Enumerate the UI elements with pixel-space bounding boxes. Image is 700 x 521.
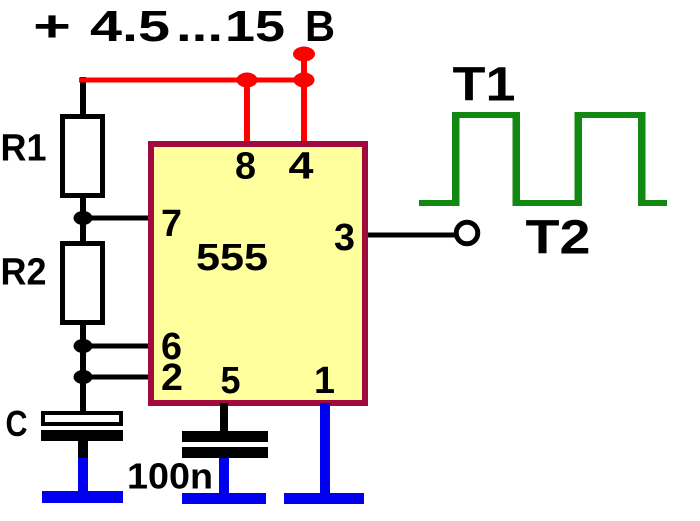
svg-text:+: + xyxy=(33,2,71,51)
wire: lead R1 to R2 xyxy=(80,195,86,243)
svg-text:3: 3 xyxy=(334,217,355,259)
wire: red drop to pin 4 xyxy=(301,56,307,144)
node: junction at pin 7 xyxy=(74,211,93,225)
node: supply terminal dot xyxy=(293,47,315,62)
wire: to pin 2 xyxy=(83,375,152,380)
svg-text:...: ... xyxy=(176,2,223,51)
resistor R1 xyxy=(63,117,103,196)
capacitor C bottom plate xyxy=(41,430,123,441)
node: junction on rail at pin 4 xyxy=(294,73,315,88)
svg-text:1: 1 xyxy=(314,360,335,402)
svg-text:R2: R2 xyxy=(1,252,47,294)
capacitor 100n top plate xyxy=(182,431,268,442)
svg-text:100n: 100n xyxy=(127,456,213,497)
wire: to pin 7 xyxy=(83,216,152,221)
node: output terminal (open circle) xyxy=(456,222,478,244)
wire: lead R2 down to capacitor C xyxy=(80,322,86,411)
svg-text:4.5: 4.5 xyxy=(90,2,170,51)
node: junction at pin 2 xyxy=(74,370,93,384)
wire: to pin 6 xyxy=(83,344,152,349)
wire: pin 5 lead down xyxy=(220,403,228,433)
capacitor 100n bottom plate xyxy=(182,447,268,458)
wire: red drop to pin 8 xyxy=(244,77,250,144)
wire: red supply rail horizontal xyxy=(79,78,307,83)
svg-text:В: В xyxy=(305,2,335,51)
wire: pin 3 output xyxy=(368,233,455,238)
svg-text:2: 2 xyxy=(161,357,183,399)
svg-text:R1: R1 xyxy=(1,128,47,170)
svg-text:5: 5 xyxy=(221,360,241,402)
capacitor C top plate xyxy=(43,413,121,424)
wire: black lead from rail down to R1 xyxy=(80,77,86,114)
wire: pin 1 lead down (blue) xyxy=(320,403,330,495)
waveform output square wave xyxy=(419,112,667,206)
svg-text:7: 7 xyxy=(161,203,182,245)
resistor R2 xyxy=(63,244,103,323)
ground: below 100n (blue) xyxy=(219,458,229,496)
svg-text:8: 8 xyxy=(235,146,256,188)
svg-text:T2: T2 xyxy=(526,212,591,265)
svg-text:C: C xyxy=(6,403,28,444)
op-amp/IC 555 U1 xyxy=(151,144,365,403)
ground: below C (blue) xyxy=(78,458,88,492)
wire: black stub below C xyxy=(78,441,88,460)
node: junction on rail at pin 8 xyxy=(237,73,258,88)
svg-text:T1: T1 xyxy=(453,59,516,112)
ground: below pin 1 (blue) xyxy=(284,493,364,504)
node: junction at pin 6 xyxy=(74,339,93,353)
svg-text:555: 555 xyxy=(196,237,268,279)
svg-text:4: 4 xyxy=(289,146,314,188)
svg-text:15: 15 xyxy=(225,2,285,51)
